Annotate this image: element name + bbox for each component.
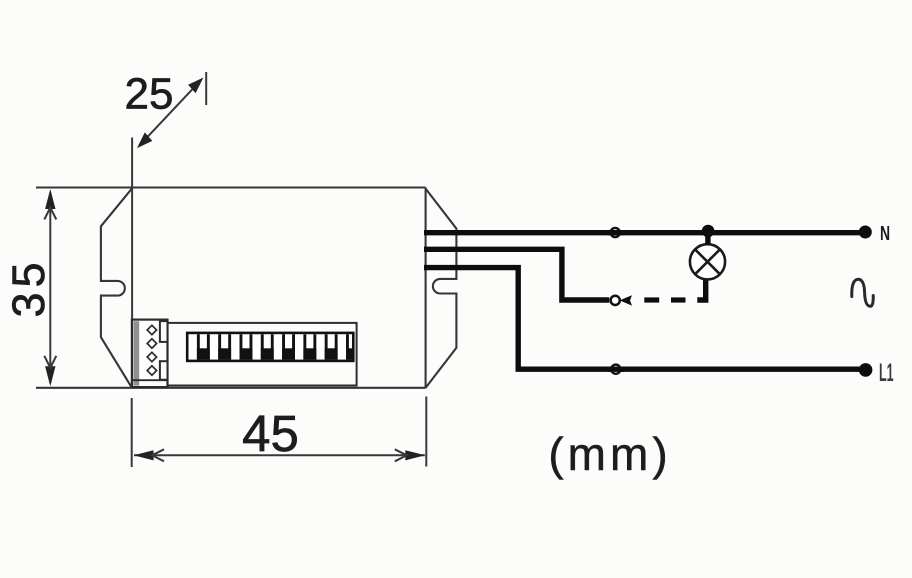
svg-text:(mm): (mm) bbox=[548, 428, 671, 480]
svg-text:L1: L1 bbox=[879, 360, 894, 388]
svg-text:35: 35 bbox=[3, 257, 54, 317]
svg-text:N: N bbox=[880, 221, 890, 244]
svg-text:25: 25 bbox=[125, 70, 174, 119]
svg-text:45: 45 bbox=[242, 405, 299, 462]
